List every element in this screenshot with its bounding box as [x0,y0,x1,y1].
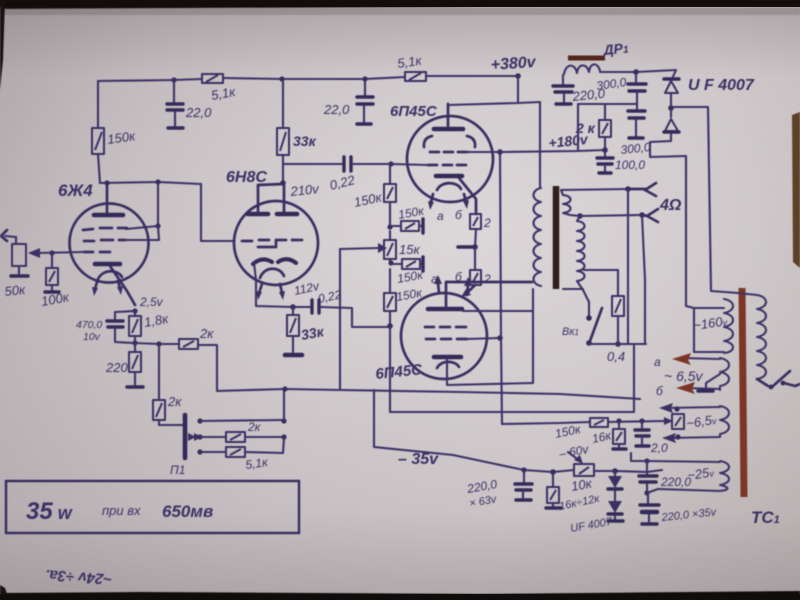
wire switch top contact [200,420,284,421]
capacitor 22.0 (left) [167,80,183,128]
wire grid2 stub [125,226,159,240]
wire 5,1k up to bus [245,438,284,453]
tube 6П45С2 cathode bar [434,355,461,360]
tube 6П45С2 grid dashes [425,326,466,329]
wire cathode to 2k [135,343,179,344]
wire tap down [474,247,476,270]
tube 6П45С1 heater arrow b [463,194,469,209]
svg-text:а: а [654,355,661,369]
winding 25v coil [720,461,729,491]
wire choke to diode [600,70,676,79]
svg-text:300,0: 300,0 [620,140,652,157]
resistor 0,4 [584,270,624,344]
svg-text:16к: 16к [591,428,614,446]
svg-text:5,1к: 5,1к [244,455,269,472]
paper edge shading top [0,0,800,9]
wire grid1 to chain top [391,164,428,165]
node cathode bottom [132,340,137,345]
svg-text:470,0: 470,0 [76,319,102,331]
wire switch bottom contact [200,451,226,453]
wire anode2 to primary bottom [463,310,532,312]
svg-text:210v: 210v [289,181,321,199]
svg-text:2к: 2к [199,326,214,341]
node 16k tap [616,418,621,423]
tube 6Н8С heater arrow right [279,284,285,300]
wire cathode2 up right side [532,289,534,383]
svg-text:U F 4007: U F 4007 [688,77,755,94]
svg-text:ДР1: ДР1 [602,39,630,58]
wire cathode1 lead [459,178,476,214]
left paper edge dark sliver [0,0,5,90]
svg-text:× 63v: × 63v [468,493,498,510]
svg-text:– 35v: – 35v [398,451,439,468]
wire rail segment [223,77,405,79]
wire +380 jog to anode1 [448,76,518,105]
svg-text:100,0: 100,0 [615,158,645,172]
svg-text:а: а [437,209,444,223]
choke ДР1 core bar [568,56,605,61]
wire 2k to long feedback line [198,345,217,390]
node pot bottom [675,434,680,439]
node bus mid [281,434,286,439]
svg-text:~ 6,5v: ~ 6,5v [664,368,704,384]
switch П1 wiper arrows [188,433,202,441]
tube 6Ж4 heater arrow right [117,281,123,295]
wire cap mid to 2k [605,103,637,105]
svg-text:2: 2 [483,216,491,230]
tube 6Н8С envelope [234,201,318,285]
svg-text:– 60v: – 60v [557,442,590,461]
wire speaker common line y344 [589,343,646,345]
node grid2 [387,323,393,329]
winding 6,5v-1 coil [720,358,729,390]
resistor 100k grid leak [45,253,59,292]
terminal arrow b (red) [676,382,695,394]
wire left leg down from rail [97,81,99,128]
capacitor 100.0 [597,150,613,173]
potentiometer 50k body [12,244,26,266]
resistor 33k anode load [277,80,289,183]
svg-text:2,5v: 2,5v [139,295,164,309]
wire secondary bottom leads [563,281,589,302]
node filter top [633,69,639,75]
tube 6П45С2 heater arrow a [434,275,442,293]
tube 6Н8С grid step [258,241,276,247]
capacitor 470,0 10v bypass [107,311,135,343]
resistor 5,1k switch [226,447,245,457]
svg-text:150к: 150к [396,267,425,285]
svg-text:10v: 10v [83,331,101,343]
wire coupling jog to 6Н8С grid [201,184,234,241]
wire switch mid contact [200,436,226,438]
node feedback line tap [282,386,287,391]
tube 6П45С1 envelope [407,116,493,202]
resistor 2k dropper [578,104,611,150]
tube 6Н8С heater arrow left [256,284,262,300]
svg-text:б: б [656,384,664,398]
wire 6П45С2 top cap [446,282,532,309]
transformer OT secondary lower coil [577,221,585,281]
node cap63 tap [521,467,526,472]
capacitor 2,0 [635,421,649,446]
wire screen bus vertical [500,152,502,424]
capacitor 300,0 lower [628,111,645,138]
wire 6,5v-1 top lead [680,358,720,359]
wire input to pot [5,236,16,244]
resistor 2k horizontal [179,339,198,349]
capacitor 0,22 lower coupling [293,300,319,313]
node 0,4 bottom [615,341,621,347]
svg-text:2: 2 [483,272,491,286]
bottom-left dark wedge [0,585,7,596]
tube 6Н8С grid dashes [242,240,302,241]
wire screens2 to bus [467,338,500,339]
svg-text:22,0: 22,0 [323,102,350,117]
tube 6Ж4 cathode bar [95,262,120,267]
capacitor 220,0 B+ [553,75,573,104]
node feedback tap [156,341,161,346]
node secondary tap [577,213,583,219]
svg-text:650мв: 650мв [162,502,213,521]
resistor 33k cathode [285,307,302,355]
tube 6Ж4 grid dashes row2 [84,240,125,241]
node screen stub [155,223,160,228]
tube 6П45С2 heater arrow b [464,277,472,295]
winding 160v coil [724,299,733,353]
transformer OT core [553,186,560,289]
wire screens to +180 bus [467,151,500,153]
svg-text:300,0: 300,0 [595,75,627,93]
wire 2k to switch [159,420,184,425]
wire screen diagonal to tube [126,226,158,229]
svg-text:50к: 50к [4,282,27,299]
wire grid line with wiper arrow [28,248,84,258]
node diode tap [612,468,618,474]
node speaker top [625,186,631,192]
terminal common cathode T-bar [458,245,473,248]
svg-text:0,4: 0,4 [607,349,625,364]
wire 2k to bus [245,436,284,438]
capacitor 22.0 (right) [357,79,373,124]
potentiometer 10k [568,452,594,476]
wire bias line y424 [502,422,590,424]
tube 6П45С1 anode bar [434,127,463,132]
wire long feedback line y390 [217,389,640,399]
resistor 2k vertical [153,400,165,420]
diode UF4007 top1 [664,79,679,106]
wire rail to +380 node [426,75,518,77]
node 2,0 tap [639,418,644,423]
svg-text:~24v ÷3а.: ~24v ÷3а. [45,566,113,588]
tube 6П45С1 heater arrow a [428,194,434,210]
wire anode node line y183 [100,182,201,184]
tube 6Ж4 envelope [70,204,149,283]
switch contact dots [197,418,202,423]
svg-text:35 w: 35 w [26,498,73,525]
tube 6П45С1 beam plates [424,136,475,147]
wire screen stub vertical [157,182,159,226]
svg-text:~25v: ~25v [686,464,715,483]
wire tap join [570,215,642,221]
node cathode top [132,308,137,313]
tube 6П45С1 grid dashes [428,164,466,167]
svg-text:150к: 150к [353,189,384,210]
tube 6Ж4 heater arc [98,271,122,279]
box 35w frame [6,481,299,533]
winding 160v bracket [694,308,724,352]
wire minus35 riser [373,390,375,446]
wire 25v bottom lead [647,489,720,493]
wire bus line y412 [390,411,634,413]
svg-text:6П45С: 6П45С [390,103,438,120]
svg-text:5,1к: 5,1к [396,53,423,71]
ground pot 50k [11,266,28,276]
wire +380 jog to primary top [518,102,540,187]
svg-text:а: а [431,272,438,286]
tube 6П45С1 cathode bar [436,174,462,179]
svg-text:2к: 2к [167,394,182,409]
right paper edge dark sliver [792,112,800,268]
wire cathode2 stem [447,357,533,385]
resistor 5,1k (rail, right) [405,72,426,81]
node rail junctions [171,77,176,82]
wire 6,5v-1 bottom lead [684,388,720,389]
bottom dark bar [0,591,800,600]
svg-text:33к: 33к [300,323,326,343]
wire 6П45С1 top cap [447,104,450,127]
resistor 150k horizontal a [390,219,423,233]
svg-text:5,1к: 5,1к [210,84,237,103]
node grid chain top [388,161,393,166]
node speaker lower [639,212,645,218]
wire 6Н8С anode stems [258,183,284,212]
terminal speaker fork lower [642,209,658,222]
svg-text:220,0 ×35v: 220,0 ×35v [660,506,718,524]
tube 6Ж4 heater arrow left [92,282,98,296]
resistor 150k chain1 [384,164,396,226]
wire to common tap [475,229,476,247]
tube 6П45С2 screen dashes [426,338,467,341]
node common cathode [472,244,478,250]
capacitor 300,0 upper [628,72,646,109]
potentiometer 6,5v hum [664,414,684,429]
svg-text:16к÷12к: 16к÷12к [558,493,601,513]
capacitor 220.0 x63v [515,470,532,500]
wire 6Н8С cathode lead [254,263,293,307]
terminal arrow top2 [659,403,673,413]
svg-text:4Ω: 4Ω [659,197,682,214]
capacitor 0,22 top coupling [344,157,351,171]
terminal arrow a (red) [672,353,691,365]
tube 6П45С2 anode bar [428,307,462,312]
node screen bus mid [497,335,503,341]
wire 6,5v-2 top lead [664,407,720,408]
tube 6Ж4 anode bar [94,213,123,218]
svg-text:15к: 15к [399,242,420,257]
svg-text:при вх: при вх [102,503,141,518]
wire 0,22 to grid node of 6П45С2 [320,307,388,327]
resistor 2 ohm lower [470,270,481,285]
node screen bus top [497,149,503,155]
svg-text:Вк1: Вк1 [562,326,579,338]
wire coupling tap to 0,22 [283,163,342,165]
wire +180 rail [500,150,605,152]
wire -35v rail [374,447,574,472]
wire top B+ rail [98,79,202,81]
tube 6П45С1 heater arc [437,183,461,190]
node switch bus top [281,418,286,423]
tube 6Н8С anode bars [248,212,297,217]
resistor 2 ohm upper [470,214,481,229]
terminal speaker fork top [628,183,656,196]
potentiometer 15k [384,231,396,263]
resistor 1,8k cathode [129,311,141,343]
resistor 150k horizontal b [391,257,423,271]
wire diode mid to right drop [672,107,738,293]
transformer OT primary winding [534,188,542,286]
svg-text:10к: 10к [570,475,594,493]
tube 6П45С2 envelope [401,293,487,379]
node anode junctions [104,180,109,185]
svg-text:220: 220 [105,360,128,375]
resistor 16k [613,421,626,449]
wire feedback to 15k wiper [340,243,387,253]
node 16k12k tap [550,469,556,475]
svg-text:1,8к: 1,8к [143,311,170,330]
wire 2 ohm into cathode2 [461,285,475,297]
wire bus vertical to feedback line [283,389,285,421]
svg-text:150к: 150к [554,422,583,441]
node +180 [602,147,608,153]
tube 6Ж4 grid dashes row3 [84,251,110,254]
tube 6П45С2 heater arc [437,362,459,368]
node grid junction [49,250,54,255]
node 210v anode [280,180,286,186]
svg-text:33к: 33к [293,133,317,149]
diode UF4007 bias 1 [608,471,622,489]
wire 6Ж4 cathode lead [110,266,135,305]
resistor 150k anode load 6Ж4 [92,128,104,154]
svg-text:+180v: +180v [548,131,590,151]
wire feedback vertical x340 [339,249,341,390]
svg-text:2,0: 2,0 [650,441,668,455]
svg-text:22,0: 22,0 [185,105,212,120]
wire 0,22 to grid chain [352,163,391,165]
capacitor 220,0 of 25v [639,461,657,493]
svg-text:~160v: ~160v [692,313,728,333]
wire mains top [738,293,757,295]
svg-text:~6,5v: ~6,5v [685,412,717,431]
resistor 5,1k (rail, left) [202,74,223,83]
winding mains coil [757,295,766,379]
terminal arrow bottom2 [662,433,676,443]
svg-text:0,22: 0,22 [328,172,357,193]
resistor 150k bias [590,418,608,427]
node cap25 tap [644,458,649,463]
wire 6,5v-2 bottom lead [668,437,720,438]
choke ДР1 winding [564,64,600,74]
tube 6Ж4 grid dashes row1 [83,228,127,230]
switch mains [757,371,800,389]
resistor 150k chain4 [384,269,396,326]
capacitor 220,0 x35v [640,493,659,524]
tube 6Н8С heater arc [260,269,284,278]
svg-text:ТС1: ТС1 [751,508,780,527]
ground center tap 6,5v-1 [698,374,720,391]
node cap35 join [644,490,649,495]
svg-text:UF 4007: UF 4007 [569,516,613,535]
wire bias line to pot [608,421,664,422]
wire grid node down to y412 [389,326,391,412]
tube 6Н8С cathode arcs [253,259,296,264]
resistor 2k switch [226,432,245,442]
svg-text:б: б [455,208,463,222]
svg-text:150к: 150к [106,128,136,147]
wire speaker return B [642,215,645,344]
node pot top [674,406,679,411]
resistor 16k-12k [546,472,561,508]
node chain a [387,224,392,229]
svg-text:2к: 2к [247,420,262,434]
diode UF4007 bias 2 [608,490,623,521]
wire 150k to anode node [98,154,100,183]
transformer TC1 core (red) [742,288,744,497]
wire anode stem 6Ж4 [106,183,109,213]
wire speaker return A [627,189,629,344]
switch П1 wafer bar [183,415,188,458]
switch Вк1 [586,302,602,346]
svg-text:6Ж4: 6Ж4 [58,181,93,200]
diode UF4007 top2 [664,108,679,141]
svg-text:+380v: +380v [490,54,537,74]
winding 6,5v-2 coil [720,406,729,437]
svg-text:6Н8С: 6Н8С [226,169,267,186]
svg-text:6П45С: 6П45С [375,361,424,383]
input terminal [1,230,7,241]
transformer OT secondary upper coil [563,195,571,215]
wire diode2 out to winding drop [650,141,694,308]
node cathode 6Н8С [290,304,296,310]
wire rail pot to diodes [594,470,662,472]
resistor 220 [127,343,143,387]
node chain b [388,260,393,265]
node diode mid [668,105,674,111]
wire 25v top lead [631,453,720,462]
wire secondary top to speaker line [561,189,628,195]
tube 6П45С1 screen dashes [430,151,467,154]
wire tap down to 2k vertical [158,344,160,400]
svg-text:П1: П1 [170,463,185,477]
wire riser x634 [633,345,635,412]
